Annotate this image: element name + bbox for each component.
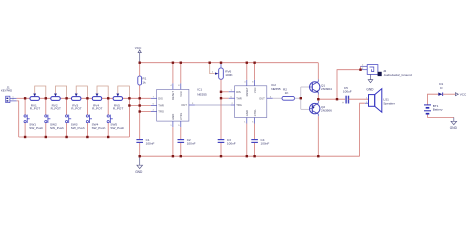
junction at 360,70 bbox=[359, 69, 361, 71]
svg-text:GND: GND bbox=[245, 110, 249, 116]
switch SW5 bbox=[107, 98, 124, 137]
svg-text:100nF: 100nF bbox=[227, 142, 236, 146]
junction at 46,137 bbox=[45, 136, 47, 138]
transistor Q1 2N3904 bbox=[310, 79, 333, 94]
wire J1 pin2 down bbox=[17, 101, 19, 137]
op-amp IC2 NE555 box bbox=[229, 80, 281, 124]
wire IC1 RESET to rail bbox=[172, 63, 174, 84]
battery BT1 bbox=[424, 94, 454, 117]
wire to Q2 base bbox=[301, 108, 310, 110]
junction at 25,137 bbox=[24, 136, 26, 138]
capacitor C2 bbox=[178, 138, 196, 146]
switch SW4 bbox=[86, 98, 105, 137]
svg-text:Speaker: Speaker bbox=[383, 101, 395, 105]
svg-text:R_POT: R_POT bbox=[30, 107, 40, 111]
wire RV6 bottom to C3 bbox=[220, 79, 222, 139]
junction at 255,156 bbox=[253, 155, 255, 157]
junction at 140,106 bbox=[139, 104, 141, 106]
wire diode to VCC flag bbox=[443, 93, 456, 95]
junction at 210,63 bbox=[209, 62, 211, 64]
connector J1 KEYPAD bbox=[1, 85, 17, 102]
svg-text:OUT: OUT bbox=[181, 103, 187, 107]
svg-text:VCC: VCC bbox=[253, 87, 257, 93]
transistor Q2 2N3906 bbox=[310, 101, 333, 116]
svg-text:VCC: VCC bbox=[135, 46, 142, 50]
svg-text:SW_Push: SW_Push bbox=[110, 126, 124, 130]
svg-text:OUT: OUT bbox=[259, 96, 265, 100]
wire to Q1 base bbox=[301, 86, 310, 88]
wire R1-C1 vertical bbox=[139, 63, 141, 76]
svg-text:SW_Push: SW_Push bbox=[92, 126, 106, 130]
junction at 301,98 bbox=[300, 97, 302, 99]
svg-text:KEYPAD: KEYPAD bbox=[1, 89, 12, 93]
svg-text:VCC: VCC bbox=[179, 91, 183, 97]
diode D1 bbox=[438, 82, 443, 96]
junction at 140,156 bbox=[139, 155, 141, 157]
svg-text:IC1: IC1 bbox=[197, 87, 202, 91]
junction at 221,156 bbox=[220, 155, 222, 157]
wire switch bottom rail bbox=[19, 136, 130, 138]
svg-text:NE555: NE555 bbox=[271, 87, 281, 91]
junction at 181,156 bbox=[180, 155, 182, 157]
svg-text:100K: 100K bbox=[225, 73, 233, 77]
junction at 337,99 bbox=[336, 98, 338, 100]
svg-text:SW_Push: SW_Push bbox=[50, 126, 64, 130]
wire RV6 node to IC2 DIS bbox=[221, 91, 229, 93]
svg-text:THR: THR bbox=[158, 104, 164, 108]
junction at 25,98 bbox=[24, 97, 26, 99]
junction at 140,98 bbox=[139, 97, 141, 99]
svg-text:TRG: TRG bbox=[158, 110, 164, 114]
svg-text:R_POT: R_POT bbox=[71, 107, 81, 111]
junction at 108,137 bbox=[107, 136, 109, 138]
junction at 318,99 bbox=[317, 98, 319, 100]
potentiometer RV5 bbox=[113, 86, 129, 111]
capacitor C3 bbox=[218, 138, 236, 146]
svg-text:R_POT: R_POT bbox=[113, 107, 123, 111]
wire IC2 CTRL to C4 bbox=[254, 124, 256, 140]
junction at 108,98 bbox=[107, 97, 109, 99]
wire IC2 OUT to R2 bbox=[273, 97, 282, 99]
resistor R2 bbox=[282, 88, 295, 101]
wire IC2 RESET to rail bbox=[246, 63, 248, 80]
junction at 173,156 bbox=[172, 155, 174, 157]
wire output node to C5 bbox=[318, 98, 345, 100]
op-amp IC1 NE555 box bbox=[151, 83, 207, 127]
svg-text:GND: GND bbox=[450, 126, 458, 130]
svg-text:CTRL: CTRL bbox=[179, 112, 183, 120]
wire THR line bbox=[129, 105, 150, 107]
junction at 140,112 bbox=[139, 110, 141, 112]
power flag VCC left bbox=[135, 46, 142, 63]
wire Q2 emitter to node bbox=[317, 99, 319, 101]
capacitor C1 bbox=[136, 138, 154, 146]
junction at 129,106 bbox=[128, 104, 130, 106]
junction at 67,137 bbox=[65, 136, 67, 138]
junction at 129,98 bbox=[128, 97, 130, 99]
svg-text:DIS: DIS bbox=[236, 90, 241, 94]
wire IC1 OUT to IC2 TRG bbox=[195, 104, 231, 106]
svg-text:GND: GND bbox=[366, 87, 374, 91]
svg-text:2N3906: 2N3906 bbox=[321, 109, 332, 113]
wire C5 to speaker bbox=[349, 98, 369, 100]
junction at 221,63 bbox=[220, 62, 222, 64]
wire J1 pin1 to chain bbox=[17, 97, 26, 99]
svg-text:RESET: RESET bbox=[245, 87, 249, 96]
svg-text:100nF: 100nF bbox=[187, 142, 196, 146]
svg-text:NE555: NE555 bbox=[197, 93, 207, 97]
svg-text:1k: 1k bbox=[142, 80, 146, 84]
svg-text:SW_Push: SW_Push bbox=[29, 126, 43, 130]
svg-text:SW_Push: SW_Push bbox=[71, 126, 85, 130]
wire Q1 collector to rail bbox=[317, 63, 319, 80]
junction at 255,63 bbox=[253, 62, 255, 64]
ground flag GND main bbox=[135, 156, 143, 174]
switch SW2 bbox=[45, 98, 64, 137]
ground flag jack bbox=[366, 74, 374, 91]
wire main GND rail bbox=[140, 155, 360, 157]
junction at 173,63 bbox=[172, 62, 174, 64]
svg-text:100uF: 100uF bbox=[343, 90, 352, 94]
wire RV6 node to IC2 THR bbox=[221, 97, 229, 99]
junction at 46,98 bbox=[45, 97, 47, 99]
svg-text:+: + bbox=[342, 101, 344, 105]
potentiometer RV2 bbox=[51, 86, 67, 111]
junction at 67,98 bbox=[65, 97, 67, 99]
svg-text:Battery: Battery bbox=[433, 108, 443, 112]
potentiometer RV4 bbox=[92, 86, 108, 111]
wire IC1 CTRL to C2 bbox=[180, 127, 182, 139]
wire Q2 collector to GND rail bbox=[317, 116, 319, 156]
switch SW3 bbox=[66, 98, 85, 137]
ground flag right bbox=[450, 117, 458, 130]
svg-text:CTRL: CTRL bbox=[253, 109, 257, 117]
junction at 247,156 bbox=[246, 155, 248, 157]
capacitor C4 bbox=[251, 138, 269, 146]
junction at 181,63 bbox=[180, 62, 182, 64]
svg-text:RESET: RESET bbox=[171, 91, 175, 100]
junction at 87,137 bbox=[86, 136, 88, 138]
svg-text:THR: THR bbox=[236, 96, 242, 100]
connector J2 AudioJack2_Ground bbox=[361, 64, 413, 76]
wire IC2 GND down bbox=[246, 124, 248, 157]
power flag VCC right bbox=[455, 93, 467, 97]
junction at 140,63 bbox=[139, 62, 141, 64]
wire pot chain bbox=[25, 97, 151, 99]
junction at 221,92 bbox=[220, 91, 222, 93]
svg-text:100nF: 100nF bbox=[261, 142, 270, 146]
wire IC1 GND down bbox=[172, 127, 174, 156]
wire chain drop to THR / switch rail bbox=[128, 98, 130, 137]
wire IC1 VCC to rail bbox=[180, 63, 182, 84]
wire R2 to base node bbox=[295, 97, 301, 99]
svg-text:VCC: VCC bbox=[460, 93, 467, 97]
junction at 247,63 bbox=[246, 62, 248, 64]
wire IC2 VCC to rail bbox=[254, 63, 256, 80]
svg-text:R_POT: R_POT bbox=[51, 107, 61, 111]
svg-text:AudioJack2_Ground: AudioJack2_Ground bbox=[384, 73, 412, 77]
svg-text:100nF: 100nF bbox=[146, 142, 155, 146]
wire VCC top rail bbox=[140, 62, 319, 64]
potentiometer RV1 bbox=[30, 86, 46, 111]
speaker LS1 bbox=[365, 89, 395, 113]
wire base node vertical bbox=[300, 87, 302, 109]
svg-text:2N3904: 2N3904 bbox=[321, 87, 332, 91]
junction at 87,98 bbox=[86, 97, 88, 99]
junction at 318,156 bbox=[317, 155, 319, 157]
svg-text:GND: GND bbox=[135, 170, 143, 174]
svg-text:R_POT: R_POT bbox=[92, 107, 102, 111]
svg-text:DIS: DIS bbox=[158, 96, 163, 100]
potentiometer RV6 bbox=[210, 63, 234, 80]
wire speaker pin2 down to rail bbox=[360, 103, 365, 156]
potentiometer RV3 bbox=[71, 86, 87, 111]
resistor R1 bbox=[138, 76, 147, 85]
junction at 221,98 bbox=[220, 97, 222, 99]
wire TRG line bbox=[140, 111, 151, 113]
svg-text:GND: GND bbox=[171, 114, 175, 120]
switch SW1 bbox=[24, 98, 43, 137]
svg-text:TRG: TRG bbox=[236, 103, 242, 107]
capacitor C5 100uF bbox=[342, 86, 352, 105]
wire Q1 emitter to node bbox=[317, 95, 319, 100]
wire audio jack tie line bbox=[337, 70, 361, 100]
